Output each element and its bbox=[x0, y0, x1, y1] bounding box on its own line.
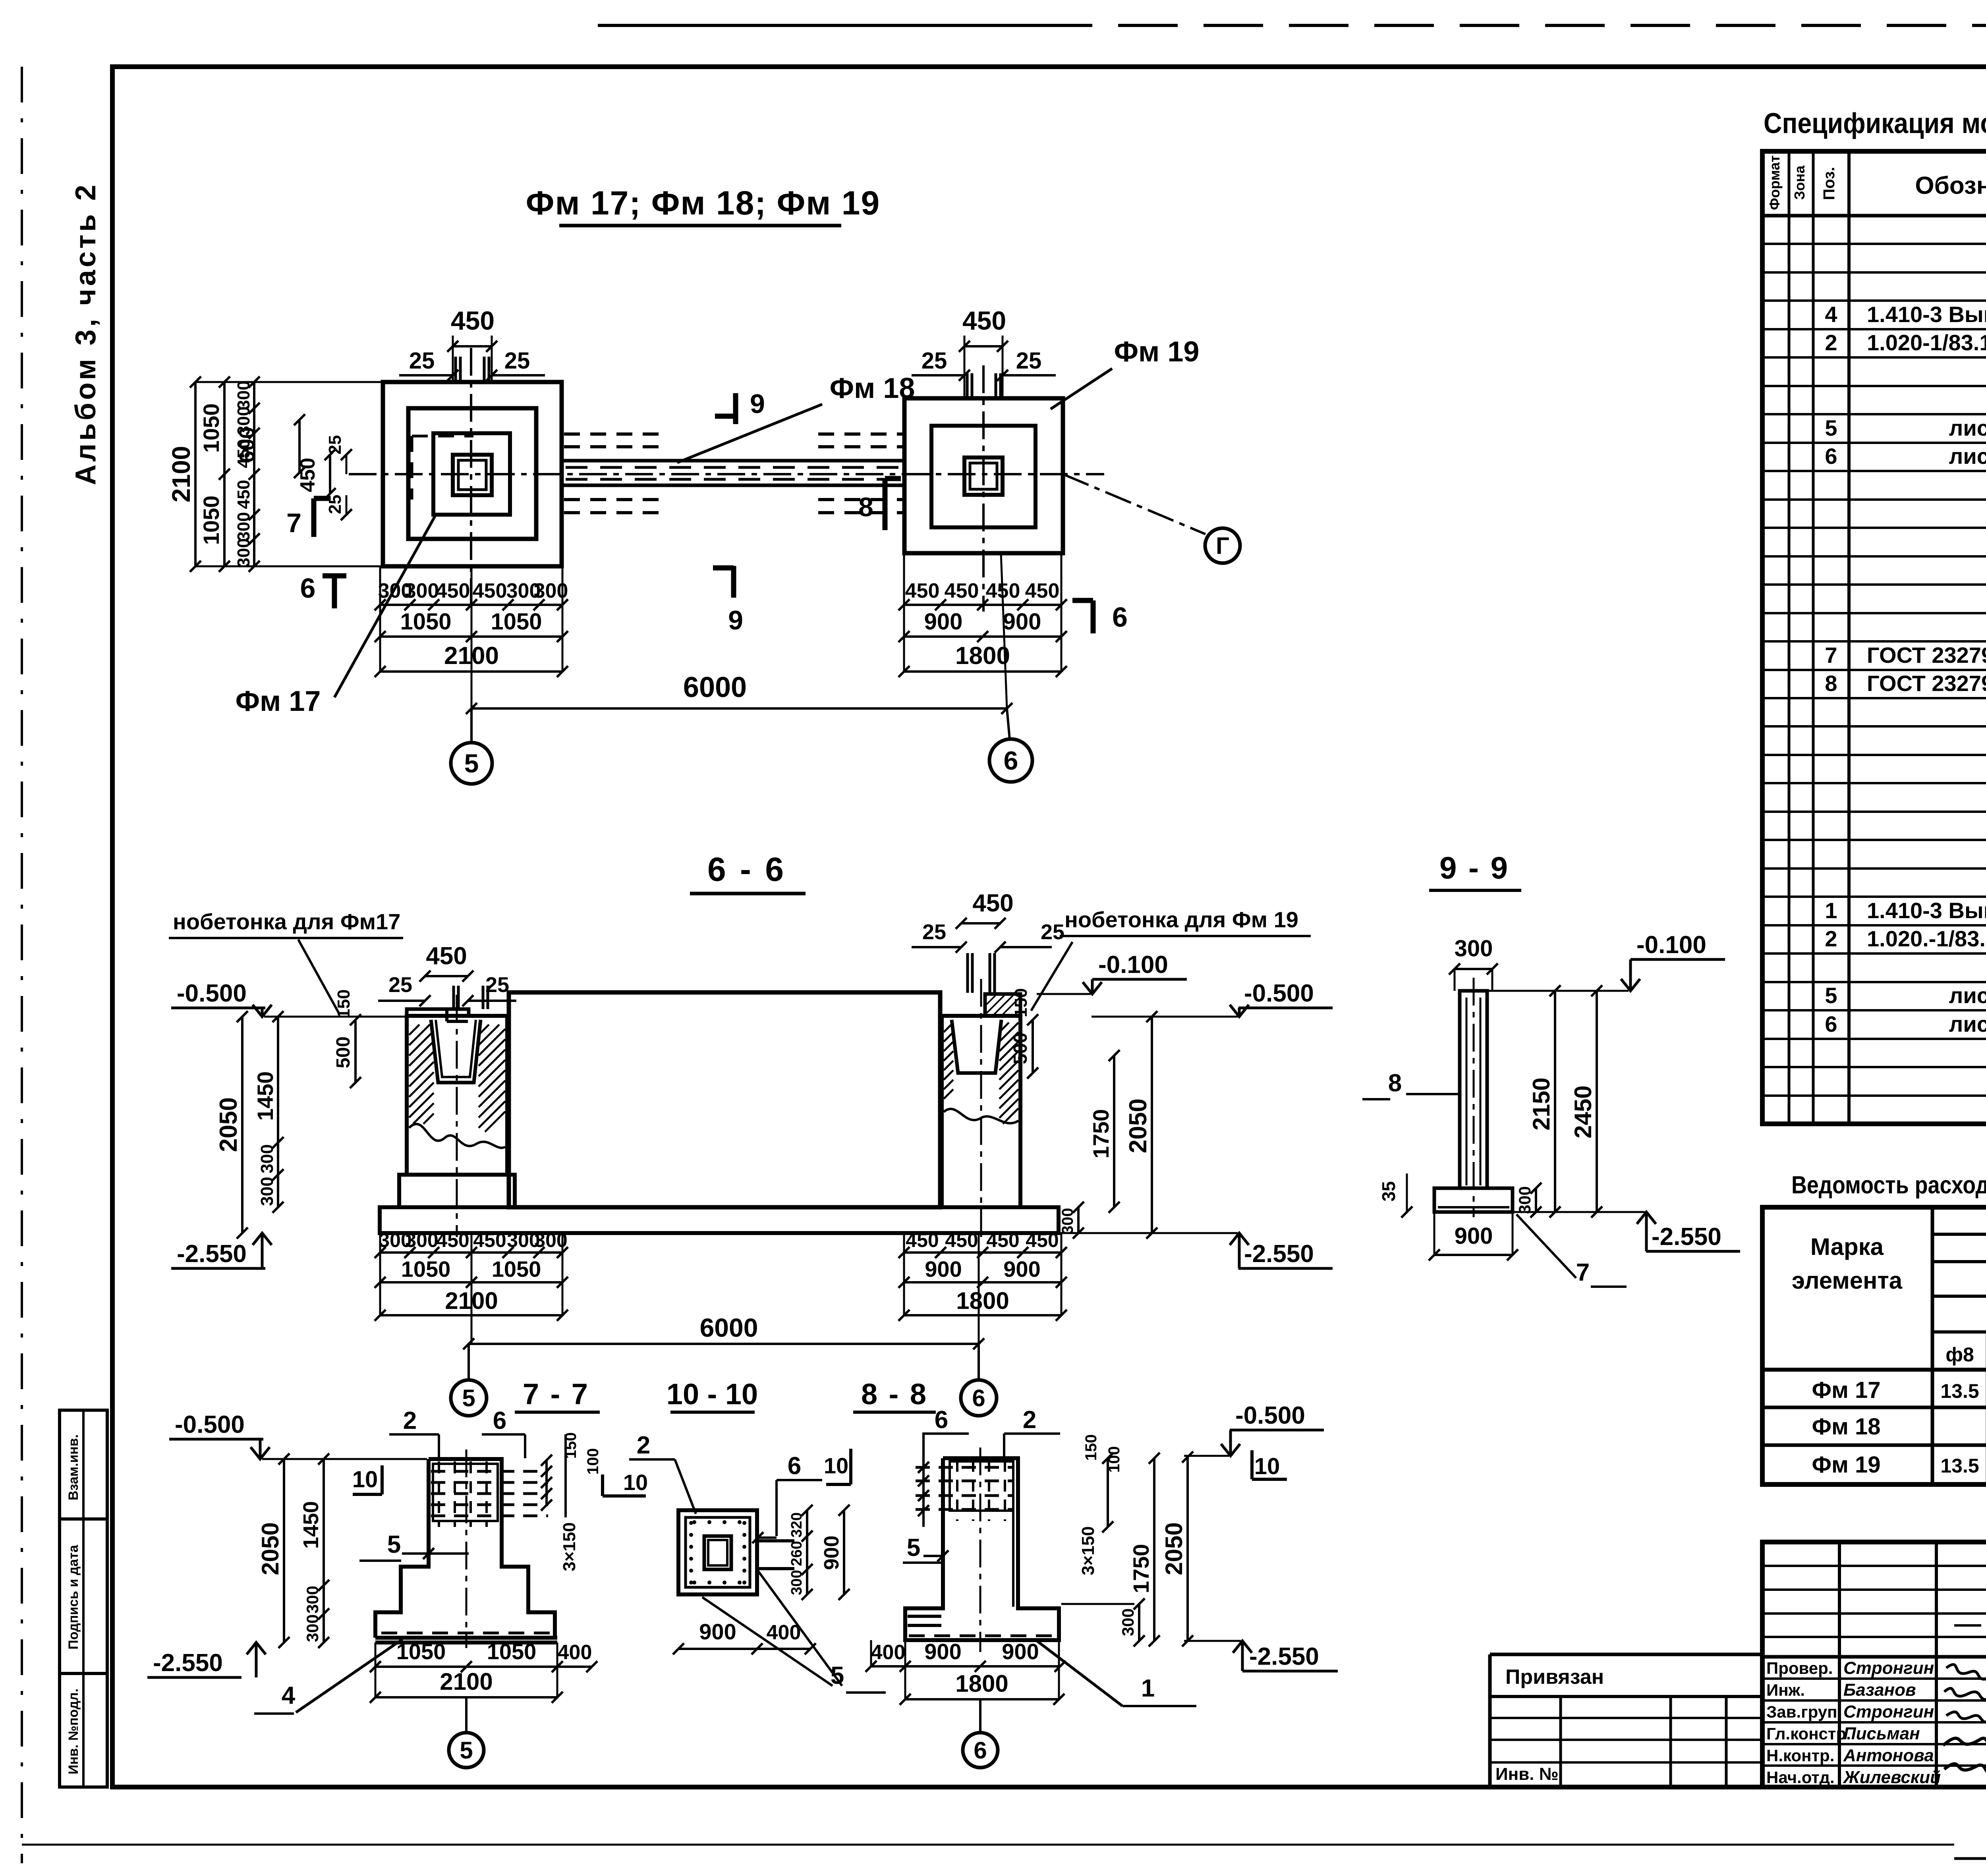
svg-text:900: 900 bbox=[924, 1639, 961, 1664]
left margin attribute strip bbox=[60, 1410, 107, 1787]
svg-text:5: 5 bbox=[462, 1385, 475, 1411]
plan left dim 600 bbox=[298, 420, 301, 473]
svg-text:450: 450 bbox=[945, 579, 979, 602]
sheet bottom edge line bbox=[22, 1844, 1954, 1846]
6-6 dim 6000 bbox=[469, 1343, 979, 1345]
plan anchor bolts Фм17 bbox=[454, 357, 457, 382]
svg-text:2050: 2050 bbox=[1124, 1098, 1152, 1153]
plan left dim column 2100 bbox=[194, 382, 197, 566]
svg-text:600: 600 bbox=[235, 427, 259, 463]
svg-text:6: 6 bbox=[1825, 444, 1837, 469]
svg-text:Стронгин: Стронгин bbox=[1843, 1702, 1934, 1722]
left pier center line bbox=[456, 995, 458, 1237]
svg-text:13.5: 13.5 bbox=[1940, 1455, 1979, 1477]
svg-text:ГОСТ 23279-85: ГОСТ 23279-85 bbox=[1867, 643, 1986, 668]
column axis circle 5 plan bbox=[470, 708, 473, 743]
svg-text:9 - 9: 9 - 9 bbox=[1439, 850, 1509, 885]
svg-text:9: 9 bbox=[750, 389, 765, 419]
plan bottom dims Фм19 row 1800 bbox=[904, 670, 1061, 673]
svg-text:1800: 1800 bbox=[955, 1670, 1008, 1697]
right pier socket cup bbox=[952, 1020, 1001, 1073]
6-6 right dim 500 150 bbox=[1032, 1020, 1034, 1073]
svg-text:400: 400 bbox=[871, 1641, 906, 1664]
svg-text:450: 450 bbox=[962, 306, 1006, 335]
svg-text:Гл.констр.: Гл.констр. bbox=[1766, 1724, 1851, 1743]
svg-text:6: 6 bbox=[493, 1407, 506, 1434]
svg-text:150: 150 bbox=[334, 989, 354, 1018]
svg-text:Поз.: Поз. bbox=[1820, 167, 1838, 200]
svg-text:10: 10 bbox=[1254, 1453, 1280, 1479]
6-6 left dim 2050 bbox=[241, 1017, 243, 1233]
plan dim 6000 bbox=[471, 707, 1007, 710]
plan bottom dims Фм19 row 450x4 bbox=[904, 604, 1061, 606]
7-7 tie spacing dim bbox=[545, 1460, 548, 1505]
6-6 bottom dims right 1800 bbox=[904, 1314, 1061, 1316]
title block signature rows bbox=[1762, 1677, 1986, 1680]
svg-text:Привязан: Привязан bbox=[1505, 1666, 1604, 1689]
svg-text:Марка: Марка bbox=[1810, 1233, 1884, 1260]
plan axis center line Фм17 vertical bbox=[470, 348, 472, 612]
svg-text:25: 25 bbox=[409, 348, 435, 374]
svg-text:1050: 1050 bbox=[396, 1639, 446, 1664]
svg-text:7: 7 bbox=[1825, 643, 1837, 668]
svg-text:-2.550: -2.550 bbox=[1244, 1240, 1314, 1268]
svg-text:Подпись и дата: Подпись и дата bbox=[66, 1544, 81, 1650]
svg-text:450: 450 bbox=[473, 1229, 506, 1251]
plan Фм19 middle square bbox=[931, 426, 1036, 527]
svg-text:300: 300 bbox=[303, 1586, 322, 1614]
svg-text:100: 100 bbox=[584, 1448, 602, 1475]
7-7 left dim 2050 bbox=[283, 1459, 285, 1642]
svg-text:1800: 1800 bbox=[956, 1287, 1009, 1314]
9-9 dim 300 top bbox=[1455, 968, 1492, 970]
svg-text:6: 6 bbox=[974, 1737, 987, 1764]
svg-text:320: 320 bbox=[788, 1512, 805, 1537]
svg-text:450: 450 bbox=[905, 579, 940, 602]
svg-text:5: 5 bbox=[1825, 983, 1837, 1008]
svg-text:900: 900 bbox=[924, 609, 963, 635]
svg-text:Инв. №подл.: Инв. №подл. bbox=[66, 1689, 81, 1774]
svg-text:2: 2 bbox=[1023, 1406, 1036, 1434]
svg-text:Инж.: Инж. bbox=[1766, 1681, 1805, 1699]
7-7 center line bbox=[466, 1449, 468, 1648]
svg-text:6000: 6000 bbox=[700, 1313, 758, 1342]
svg-text:1050: 1050 bbox=[491, 609, 542, 635]
plan left dim column 1050 1050 bbox=[223, 382, 226, 566]
svg-text:6: 6 bbox=[935, 1406, 948, 1434]
svg-text:Антонова: Антонова bbox=[1843, 1746, 1934, 1765]
svg-text:25: 25 bbox=[1016, 348, 1042, 374]
svg-text:Фм 18: Фм 18 bbox=[830, 372, 915, 404]
svg-text:5: 5 bbox=[1825, 415, 1837, 440]
10-10 right dims 300 260 320 bbox=[806, 1510, 808, 1594]
9-9 dim 900 bbox=[1434, 1254, 1513, 1256]
steel table main columns bbox=[1931, 1207, 1934, 1484]
svg-text:6: 6 bbox=[1825, 1011, 1837, 1036]
svg-text:300: 300 bbox=[1515, 1186, 1534, 1214]
svg-text:900: 900 bbox=[1003, 609, 1041, 635]
svg-text:1450: 1450 bbox=[253, 1071, 278, 1121]
svg-text:900: 900 bbox=[1002, 1639, 1039, 1664]
svg-text:450: 450 bbox=[436, 579, 470, 602]
column axis circle 6 plan bbox=[1007, 708, 1010, 739]
7-7 left dim 1450 300 300 bbox=[323, 1459, 325, 1642]
svg-text:150: 150 bbox=[562, 1432, 580, 1459]
right pier nabetonka cap bbox=[985, 994, 1020, 1016]
svg-text:Фм 19: Фм 19 bbox=[1114, 336, 1200, 368]
sheet left edge line bbox=[21, 67, 23, 1863]
steel table header lines bbox=[1932, 1233, 1986, 1236]
privyazan sub table bbox=[1490, 1653, 1762, 1656]
svg-text:3×150: 3×150 bbox=[560, 1522, 579, 1571]
svg-text:300: 300 bbox=[257, 1177, 277, 1206]
svg-text:7 - 7: 7 - 7 bbox=[523, 1378, 589, 1411]
svg-text:1050: 1050 bbox=[401, 1256, 451, 1282]
right pier center line bbox=[980, 979, 982, 1237]
plan Фм17 dashed offset outline bbox=[412, 435, 473, 438]
svg-text:300: 300 bbox=[405, 1229, 438, 1251]
right pier hatch bbox=[944, 1023, 953, 1032]
svg-text:1050: 1050 bbox=[400, 609, 451, 635]
svg-text:-2.550: -2.550 bbox=[153, 1649, 223, 1677]
sheet top partial border line bbox=[598, 24, 1033, 27]
plan Фм17 inner square bbox=[433, 433, 510, 515]
svg-text:1750: 1750 bbox=[1128, 1544, 1153, 1594]
svg-text:-2.550: -2.550 bbox=[177, 1240, 247, 1268]
svg-text:Зав.груп.: Зав.груп. bbox=[1766, 1702, 1842, 1721]
axis Г circle with leader bbox=[1063, 474, 1206, 534]
svg-text:-2.550: -2.550 bbox=[1249, 1643, 1319, 1670]
column circle 5 mid bbox=[468, 1344, 470, 1380]
svg-text:1.410-3 Вып.1: 1.410-3 Вып.1 bbox=[1867, 302, 1986, 327]
svg-text:нобетонка для Фм17: нобетонка для Фм17 bbox=[173, 909, 400, 934]
plan axis center line horizontal bbox=[349, 473, 1104, 475]
plan Фм17 middle square bbox=[408, 408, 536, 539]
svg-text:-0.500: -0.500 bbox=[1244, 980, 1314, 1007]
svg-text:450: 450 bbox=[945, 1229, 978, 1251]
svg-text:7: 7 bbox=[1576, 1259, 1590, 1286]
svg-text:150: 150 bbox=[1011, 988, 1031, 1017]
svg-text:-0.100: -0.100 bbox=[1636, 931, 1706, 959]
plan beam reinforcement bars bbox=[564, 432, 659, 436]
section mark 9 upper bbox=[715, 414, 736, 419]
plan bottom dims Фм17 row 300 300 450 450 300 300 bbox=[380, 604, 562, 606]
svg-text:-0.500: -0.500 bbox=[1235, 1402, 1305, 1429]
svg-text:300: 300 bbox=[1119, 1608, 1137, 1636]
svg-text:450: 450 bbox=[451, 306, 495, 335]
svg-text:400: 400 bbox=[767, 1621, 801, 1644]
svg-text:300: 300 bbox=[303, 1614, 322, 1642]
svg-text:Инв. №: Инв. № bbox=[1495, 1764, 1559, 1784]
svg-text:900: 900 bbox=[925, 1256, 962, 1282]
section mark 7 plan bbox=[314, 496, 330, 501]
svg-text:900: 900 bbox=[1455, 1223, 1493, 1249]
svg-text:6: 6 bbox=[300, 573, 316, 604]
7-7 reinforcement cage bbox=[433, 1464, 498, 1521]
svg-text:25: 25 bbox=[504, 348, 530, 374]
svg-text:Фм 17; Фм 18; Фм 19: Фм 17; Фм 18; Фм 19 bbox=[526, 184, 880, 222]
svg-text:450: 450 bbox=[1025, 579, 1060, 602]
svg-text:Базанов: Базанов bbox=[1843, 1680, 1916, 1700]
svg-text:300: 300 bbox=[405, 579, 439, 602]
svg-text:лист 19: лист 19 bbox=[1949, 444, 1986, 469]
6-6 bottom dims left 300 300 450 450 300 300 bbox=[380, 1251, 562, 1254]
spec table frame bbox=[1762, 151, 1986, 1124]
svg-text:2050: 2050 bbox=[215, 1097, 242, 1152]
svg-text:Письман: Письман bbox=[1843, 1724, 1920, 1743]
svg-text:150: 150 bbox=[1082, 1434, 1100, 1461]
svg-text:ГОСТ 23279-85: ГОСТ 23279-85 bbox=[1867, 671, 1986, 696]
title block upper band thin rows bbox=[1762, 1565, 1986, 1567]
svg-text:ф8: ф8 bbox=[1945, 1343, 1974, 1366]
svg-text:10: 10 bbox=[824, 1453, 848, 1478]
column circle 6 mid bbox=[978, 1344, 980, 1380]
svg-text:-2.550: -2.550 bbox=[1652, 1223, 1721, 1251]
svg-text:1050: 1050 bbox=[487, 1639, 537, 1664]
right pier concrete dots region bbox=[944, 1109, 1018, 1123]
svg-text:35: 35 bbox=[1378, 1181, 1399, 1201]
8-8 bottom dim 400 900 900 bbox=[871, 1665, 1060, 1668]
svg-text:1050: 1050 bbox=[199, 403, 224, 453]
svg-text:1750: 1750 bbox=[1088, 1109, 1113, 1159]
svg-text:1050: 1050 bbox=[492, 1256, 541, 1282]
section mark 6 right bbox=[1072, 598, 1093, 603]
6-6 left dim 1450 300 300 bbox=[277, 1017, 279, 1207]
6-6 left dim 500 150 bbox=[354, 1020, 357, 1083]
svg-text:1450: 1450 bbox=[299, 1501, 323, 1549]
10-10 bottom dim 900 400 bbox=[678, 1648, 810, 1650]
svg-text:2: 2 bbox=[637, 1432, 650, 1459]
left pier hatch left side bbox=[409, 1025, 419, 1035]
svg-text:6: 6 bbox=[1112, 602, 1128, 633]
plan foundation Фм19 outer square bbox=[904, 398, 1063, 553]
8-8 right dim 1750 bbox=[1153, 1458, 1155, 1641]
svg-text:нобетонка для Фм 19: нобетонка для Фм 19 bbox=[1064, 907, 1298, 932]
svg-text:400: 400 bbox=[558, 1641, 592, 1664]
svg-text:Г: Г bbox=[1216, 533, 1229, 559]
svg-text:450: 450 bbox=[906, 1229, 939, 1251]
svg-text:25: 25 bbox=[1041, 920, 1064, 944]
svg-text:-0.500: -0.500 bbox=[177, 980, 247, 1007]
svg-text:2450: 2450 bbox=[1570, 1085, 1596, 1138]
left pier concrete boundary wavy line bbox=[409, 1124, 505, 1148]
svg-text:1: 1 bbox=[1825, 898, 1837, 923]
8-8 bottom dim 1800 bbox=[905, 1698, 1059, 1700]
title block signatures squiggles bbox=[1946, 1664, 1986, 1679]
svg-text:5: 5 bbox=[907, 1534, 920, 1561]
10-10 right dim 900 bbox=[843, 1510, 845, 1594]
svg-text:Н.контр.: Н.контр. bbox=[1766, 1746, 1834, 1765]
svg-text:450: 450 bbox=[234, 480, 253, 509]
svg-text:300: 300 bbox=[788, 1570, 805, 1595]
svg-text:6000: 6000 bbox=[683, 672, 747, 703]
svg-text:лист 19: лист 19 bbox=[1949, 983, 1986, 1008]
6-6 right dim 1750 bbox=[1113, 1056, 1115, 1207]
8-8 right dim 2050 bbox=[1186, 1457, 1189, 1641]
svg-text:300: 300 bbox=[234, 538, 253, 567]
section mark 9 lower bbox=[713, 566, 734, 571]
8-8 center line bbox=[979, 1448, 981, 1652]
section mark 8 plan bbox=[885, 476, 901, 481]
svg-text:300: 300 bbox=[257, 1144, 277, 1173]
svg-text:13.5: 13.5 bbox=[1940, 1380, 1979, 1402]
svg-text:2050: 2050 bbox=[1161, 1522, 1187, 1575]
svg-text:450: 450 bbox=[1026, 1229, 1059, 1251]
section 8-8 foundation profile bbox=[905, 1458, 1059, 1640]
svg-text:25: 25 bbox=[922, 348, 947, 374]
6-6 right dim 2050 bbox=[1151, 1017, 1153, 1233]
svg-text:Фм 18: Фм 18 bbox=[1812, 1414, 1880, 1440]
6-6 bottom dims right 900 900 bbox=[904, 1281, 1061, 1283]
svg-text:2100: 2100 bbox=[167, 446, 195, 502]
svg-text:2: 2 bbox=[403, 1407, 417, 1434]
svg-text:500: 500 bbox=[333, 1036, 354, 1068]
svg-text:1: 1 bbox=[1141, 1675, 1155, 1702]
8-8 right dim 300 bbox=[1138, 1604, 1140, 1641]
svg-text:-0.100: -0.100 bbox=[1098, 951, 1168, 979]
8-8 left rebar stubs bbox=[908, 1615, 941, 1618]
svg-text:Взам.инв.: Взам.инв. bbox=[66, 1434, 81, 1500]
plan Фм17 column stub bbox=[453, 455, 492, 495]
svg-text:6: 6 bbox=[972, 1385, 985, 1411]
section 6-6 base slab bbox=[380, 1207, 1059, 1233]
svg-text:6: 6 bbox=[1004, 746, 1018, 775]
svg-text:5: 5 bbox=[460, 1737, 473, 1764]
svg-text:450: 450 bbox=[473, 579, 507, 602]
svg-text:Спецификация монолитных фундам: Спецификация монолитных фундаментов Фм17… bbox=[1764, 108, 1986, 139]
svg-text:Ведомость расхода стали на оди: Ведомость расхода стали на один элемент,… bbox=[1791, 1172, 1986, 1199]
section 6-6 beam body bbox=[509, 992, 940, 1207]
svg-text:2150: 2150 bbox=[1528, 1077, 1555, 1130]
svg-text:Формат: Формат bbox=[1766, 155, 1783, 210]
7-7 bottom dim 1050 1050 400 bbox=[375, 1666, 592, 1668]
plan left dim column 300 300 450 450 300 300 bbox=[253, 382, 255, 566]
svg-text:25: 25 bbox=[388, 973, 412, 997]
svg-text:Провер.: Провер. bbox=[1766, 1659, 1833, 1677]
9-9 dim 300 bottom bbox=[1535, 1188, 1537, 1212]
svg-text:8: 8 bbox=[858, 492, 873, 522]
svg-text:-0.500: -0.500 bbox=[175, 1411, 245, 1438]
column circle 6 bottom bbox=[979, 1699, 981, 1733]
svg-text:4: 4 bbox=[282, 1682, 296, 1709]
section 6-6 left pier outline bbox=[407, 1016, 507, 1175]
plan beam Фм18 outline bbox=[562, 459, 904, 463]
10-10 column core bbox=[704, 1536, 731, 1569]
svg-text:8 - 8: 8 - 8 bbox=[861, 1378, 928, 1411]
plan bottom dims Фм17 row 2100 bbox=[380, 670, 562, 673]
plan left dim 450 bbox=[329, 455, 331, 494]
plan bottom dims Фм19 row 900 900 bbox=[904, 635, 1061, 638]
svg-text:3×150: 3×150 bbox=[1078, 1526, 1098, 1575]
svg-text:Фм 17: Фм 17 bbox=[1812, 1377, 1880, 1403]
9-9 footing bbox=[1434, 1188, 1513, 1212]
9-9 dim 2150 bbox=[1554, 991, 1556, 1212]
left pier nabetonka cap bbox=[407, 1009, 469, 1016]
column circle 5 bottom bbox=[465, 1697, 468, 1733]
svg-text:450: 450 bbox=[296, 458, 319, 492]
svg-text:Нач.отд.: Нач.отд. bbox=[1766, 1768, 1835, 1787]
svg-text:450: 450 bbox=[426, 942, 467, 970]
svg-text:900: 900 bbox=[1003, 1256, 1040, 1282]
svg-text:5: 5 bbox=[464, 749, 479, 778]
9-9 center line bbox=[1473, 978, 1475, 1217]
spec table row rules bbox=[1762, 243, 1986, 245]
plan Фм19 column stub bbox=[964, 457, 1003, 495]
steel table frame bbox=[1762, 1207, 1986, 1484]
spec table header row bbox=[1762, 214, 1986, 218]
svg-text:4: 4 bbox=[1825, 302, 1837, 327]
7-7 bottom dim 2100 bbox=[375, 1696, 557, 1698]
6-6 left pier anchor bolts bbox=[452, 986, 455, 1009]
svg-text:1.410-3 Вып.1: 1.410-3 Вып.1 bbox=[1867, 898, 1986, 923]
svg-text:6 - 6: 6 - 6 bbox=[707, 851, 786, 888]
svg-text:7: 7 bbox=[286, 508, 301, 538]
svg-text:Зона: Зона bbox=[1791, 165, 1808, 200]
spec table column lines bbox=[1788, 151, 1791, 1124]
svg-text:Жилевский: Жилевский bbox=[1843, 1768, 1941, 1787]
plan extension lines left bbox=[195, 381, 383, 383]
section 10-10 square outer bbox=[678, 1510, 757, 1594]
svg-text:1.020-1/83.1-10.3.0-01: 1.020-1/83.1-10.3.0-01 bbox=[1867, 330, 1986, 355]
6-6 right dim 300 bbox=[1077, 1207, 1080, 1233]
9-9 wall outline bbox=[1460, 991, 1487, 1188]
svg-text:25: 25 bbox=[325, 435, 345, 455]
svg-text:300: 300 bbox=[234, 512, 253, 541]
8-8 reinforcement cage bbox=[950, 1461, 1013, 1511]
svg-text:8: 8 bbox=[1388, 1069, 1402, 1097]
svg-text:Фм 17: Фм 17 bbox=[236, 685, 321, 717]
svg-text:элемента: элемента bbox=[1792, 1267, 1903, 1294]
svg-text:300: 300 bbox=[234, 380, 253, 409]
svg-text:Фм 19: Фм 19 bbox=[1812, 1452, 1880, 1478]
svg-text:10: 10 bbox=[623, 1470, 648, 1495]
svg-text:450: 450 bbox=[972, 890, 1013, 917]
8-8 base rebar dashes bbox=[909, 1635, 1057, 1637]
plan axis center line Фм19 vertical bbox=[982, 365, 985, 612]
svg-text:500: 500 bbox=[1010, 1033, 1031, 1064]
svg-text:900: 900 bbox=[699, 1619, 736, 1644]
10-10 inner ring bbox=[686, 1517, 750, 1587]
6-6 bottom dims left 1050 1050 bbox=[380, 1281, 562, 1283]
title block outer frame bbox=[1762, 1542, 1986, 1787]
svg-text:Альбом 3, часть 2: Альбом 3, часть 2 bbox=[70, 182, 102, 485]
svg-text:2050: 2050 bbox=[257, 1522, 284, 1575]
svg-text:300: 300 bbox=[1455, 936, 1493, 961]
svg-text:2100: 2100 bbox=[440, 1668, 493, 1695]
6-6 bottom dims right 450x4 bbox=[904, 1251, 1061, 1254]
svg-text:25: 25 bbox=[922, 920, 946, 944]
plan bottom dims Фм17 row 1050 1050 bbox=[380, 635, 562, 638]
svg-text:300: 300 bbox=[1059, 1208, 1076, 1235]
svg-text:10: 10 bbox=[352, 1467, 378, 1492]
svg-text:лист 19: лист 19 bbox=[1949, 1011, 1986, 1036]
7-7 base rebar dashes bbox=[381, 1632, 552, 1635]
6-6 bottom dims left 2100 bbox=[380, 1314, 562, 1316]
svg-text:900: 900 bbox=[820, 1536, 843, 1570]
10-10 dots in ring bbox=[689, 1521, 693, 1525]
title block upper band columns bbox=[1838, 1542, 1841, 1787]
svg-text:1800: 1800 bbox=[955, 642, 1010, 670]
svg-text:1.020.-1/83.1-10.3.0-01: 1.020.-1/83.1-10.3.0-01 bbox=[1867, 926, 1986, 951]
svg-text:2: 2 bbox=[1825, 330, 1837, 355]
svg-text:6: 6 bbox=[788, 1452, 801, 1480]
svg-text:450: 450 bbox=[986, 1229, 1019, 1251]
8-8 tie spacing dim bbox=[922, 1434, 925, 1527]
svg-text:260: 260 bbox=[788, 1541, 805, 1566]
left pier socket cup bbox=[431, 1020, 481, 1083]
section 6-6 right pier outline bbox=[942, 1016, 1020, 1207]
svg-text:Обозначение: Обозначение bbox=[1915, 172, 1986, 199]
